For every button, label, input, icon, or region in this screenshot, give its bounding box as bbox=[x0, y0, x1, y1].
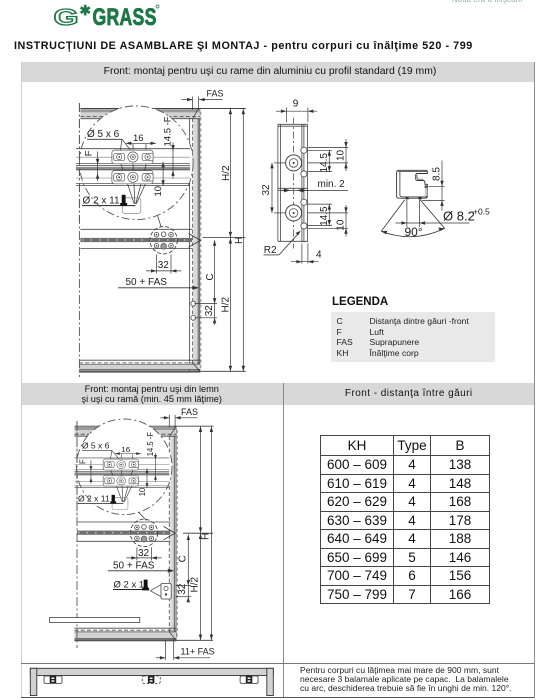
detail circle bbox=[80, 106, 194, 220]
svg-text:10: 10 bbox=[336, 219, 347, 231]
svg-text:C: C bbox=[178, 555, 189, 562]
svg-text:8.5: 8.5 bbox=[432, 167, 443, 181]
top board bbox=[30, 668, 273, 675]
svg-text:GRASS: GRASS bbox=[93, 3, 157, 31]
middle rail bbox=[80, 228, 192, 230]
dim 8.5 bbox=[422, 161, 445, 211]
profile body bbox=[278, 124, 308, 242]
clip gasket dark square bbox=[425, 185, 428, 188]
mid tick bbox=[203, 237, 246, 239]
section 2 header bar right bbox=[284, 383, 535, 405]
svg-text:G: G bbox=[54, 3, 79, 30]
dim diameter 8.2 bbox=[396, 200, 470, 228]
frame borders bbox=[21, 62, 22, 697]
svg-text:H: H bbox=[201, 533, 212, 540]
svg-text:H/2: H/2 bbox=[221, 297, 232, 313]
right dims bottom group bbox=[308, 204, 349, 236]
GRASS logo bbox=[0, 0, 200, 34]
dim C and 32 on side 2 bbox=[187, 535, 189, 603]
svg-text:90°: 90° bbox=[405, 225, 423, 239]
svg-text:H/2: H/2 bbox=[190, 577, 201, 593]
svg-text:50 + FAS: 50 + FAS bbox=[113, 561, 155, 572]
detail circle 2 white fill bbox=[76, 419, 172, 515]
svg-text:32: 32 bbox=[177, 583, 188, 595]
right dims top group bbox=[308, 139, 349, 172]
clip inner wall bbox=[400, 172, 426, 197]
svg-text:32: 32 bbox=[138, 548, 150, 559]
svg-text:FAS: FAS bbox=[207, 88, 224, 98]
dim 32 left bbox=[271, 163, 273, 213]
arrow plate to panel 2 bbox=[164, 526, 176, 539]
cabinet bottom band bbox=[79, 359, 200, 361]
svg-text:R2: R2 bbox=[264, 245, 277, 256]
svg-text:4: 4 bbox=[316, 249, 322, 260]
svg-text:10: 10 bbox=[336, 149, 347, 161]
cabinet top band bbox=[80, 109, 200, 112]
dim C and 32 on side bbox=[214, 240, 216, 325]
hinge 3 bbox=[240, 676, 258, 684]
title bbox=[14, 40, 473, 52]
faint cut-off slogan top right bbox=[452, 0, 522, 4]
left door edge dash-dot bbox=[78, 103, 80, 377]
edge notch circles bbox=[301, 147, 307, 229]
svg-text:H: H bbox=[234, 237, 245, 244]
clip outer contour bbox=[397, 170, 428, 198]
hinge 2 dashed bbox=[142, 676, 160, 684]
bottom ext line 2 bbox=[176, 639, 213, 641]
detail circle interior (rails, hinges, labels) bbox=[76, 116, 190, 213]
shelf bar bbox=[50, 618, 140, 623]
legend box bbox=[331, 312, 495, 362]
leader circle to plate 2 bbox=[139, 512, 147, 520]
cabinet top band 2 bbox=[75, 427, 177, 430]
svg-text:C: C bbox=[205, 273, 216, 280]
arrow plate to panel bbox=[189, 234, 201, 248]
svg-text:+0.5: +0.5 bbox=[473, 207, 490, 217]
detail circle 2 bbox=[76, 419, 172, 515]
svg-text:32: 32 bbox=[204, 305, 215, 317]
svg-text:14.5: 14.5 bbox=[319, 206, 330, 226]
svg-text:32: 32 bbox=[158, 260, 170, 271]
hinge detail interior scaled bbox=[72, 432, 170, 510]
left door edge dash-dot 2 bbox=[76, 421, 78, 648]
right side panel bbox=[193, 109, 198, 372]
svg-text:50 + FAS: 50 + FAS bbox=[126, 277, 168, 288]
svg-text:min. 2: min. 2 bbox=[318, 179, 346, 190]
leader circle to plate bbox=[158, 216, 162, 227]
panel hole ticks 2 bbox=[176, 585, 191, 587]
bottom paragraph bbox=[300, 666, 516, 693]
dim 32 below plate 2 bbox=[127, 547, 162, 560]
svg-text:H/2: H/2 bbox=[221, 165, 232, 181]
mounting plate 2 bbox=[130, 519, 157, 546]
section 2 header bar left bbox=[21, 383, 283, 405]
svg-text:32: 32 bbox=[261, 184, 272, 196]
clip feet bbox=[405, 197, 409, 199]
dim H bbox=[242, 109, 244, 372]
middle rail 2 bbox=[77, 521, 170, 523]
svg-text:14.5: 14.5 bbox=[319, 153, 330, 173]
dim 32 below plate bbox=[146, 255, 181, 274]
dim H/2 top bbox=[229, 109, 231, 372]
dim H/2 line 2 bbox=[200, 426, 202, 640]
svg-text:FAS: FAS bbox=[181, 407, 198, 417]
detail circle white fill bbox=[80, 106, 194, 220]
LEGENDA heading bbox=[332, 296, 388, 308]
90 degree fan bbox=[381, 200, 445, 237]
panel holes bbox=[191, 301, 196, 306]
mid tick 2 bbox=[183, 532, 213, 534]
right side panel 2 bbox=[170, 426, 174, 641]
screw bosses bbox=[286, 155, 302, 221]
right side bar bbox=[267, 668, 274, 695]
hinge 1 bbox=[44, 676, 62, 684]
profile center dash-dot bbox=[293, 118, 295, 249]
mounting plate bbox=[150, 227, 177, 254]
cabinet bottom band 2 bbox=[75, 627, 177, 629]
svg-text:11+ FAS: 11+ FAS bbox=[181, 647, 215, 657]
KH/Type/B table bbox=[320, 435, 490, 605]
svg-text:Ø 2 x 11: Ø 2 x 11 bbox=[114, 579, 149, 590]
bottom ext line bbox=[200, 370, 245, 372]
svg-text:9: 9 bbox=[293, 99, 299, 110]
section 1 header bar bbox=[21, 62, 534, 82]
left side bar bbox=[30, 668, 37, 695]
dim H 2 bbox=[210, 426, 212, 640]
svg-text:Ø 8.2: Ø 8.2 bbox=[443, 209, 475, 224]
